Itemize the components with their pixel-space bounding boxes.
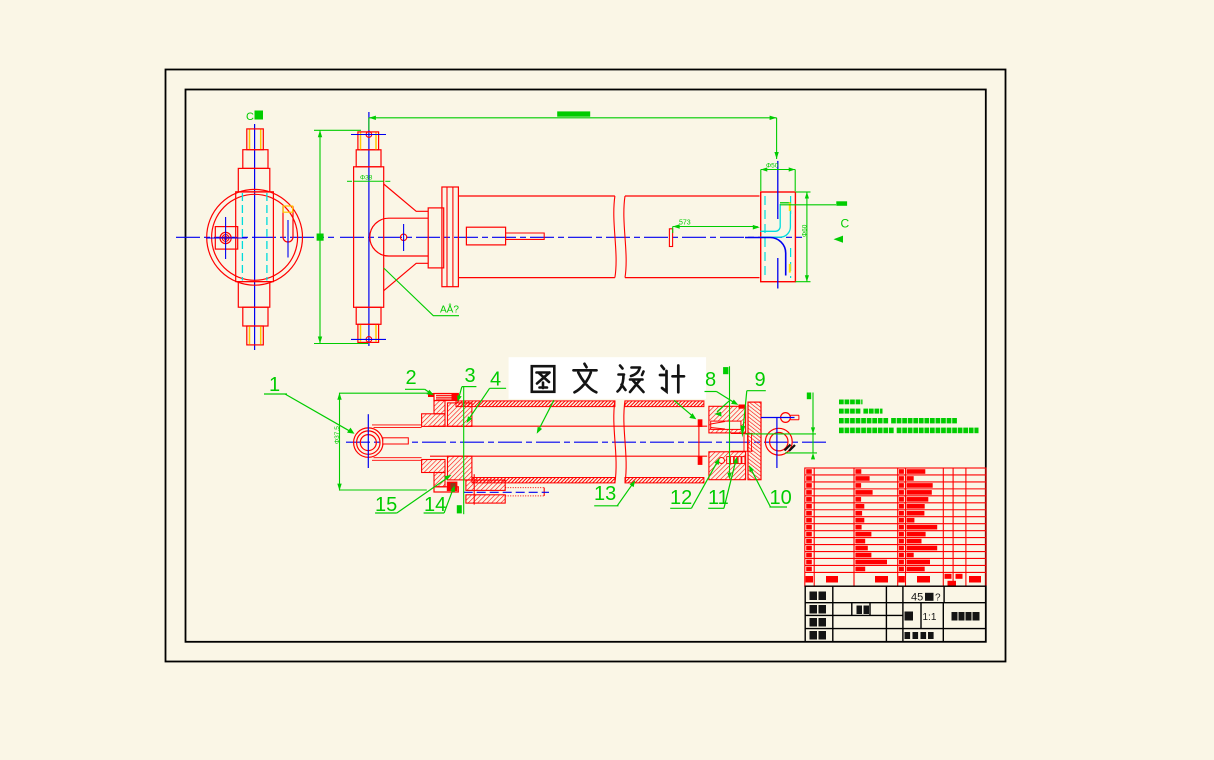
right eye vertical centerline bbox=[776, 418, 778, 468]
height dimension between views bbox=[314, 130, 368, 343]
piston port block bbox=[739, 405, 746, 409]
svg-text:8: 8 bbox=[705, 369, 716, 391]
eye diameter dimension bbox=[340, 393, 428, 491]
scale cell bbox=[905, 612, 914, 621]
label5 leader remnant bbox=[538, 400, 554, 430]
parts list header texts bbox=[806, 574, 982, 586]
svg-text:Φ38: Φ38 bbox=[360, 175, 373, 182]
port stub bbox=[790, 415, 799, 419]
A-A view vertical centerline bbox=[368, 112, 370, 346]
fitting centerlines bbox=[206, 237, 247, 239]
piston top half bbox=[709, 406, 746, 433]
C-view horizontal centerline bbox=[176, 236, 334, 238]
eye boss bar bbox=[383, 438, 409, 444]
trunnion body bbox=[354, 167, 384, 307]
svg-text:10: 10 bbox=[770, 487, 792, 509]
piston ring grooves bbox=[727, 457, 745, 464]
break line right bbox=[624, 196, 626, 278]
section line green vertical bbox=[463, 387, 465, 514]
rod eye vertical centerline bbox=[367, 414, 369, 468]
yellow lines bottom pin bbox=[360, 325, 362, 342]
svg-text:4: 4 bbox=[490, 369, 501, 391]
section centerline bbox=[346, 441, 826, 443]
label6 leader remnant bbox=[674, 400, 694, 417]
trunnion top pin step1 bbox=[358, 132, 379, 150]
drawing title cell bbox=[952, 612, 980, 621]
parts list table grid bbox=[805, 468, 986, 586]
cyan pipe elbow bbox=[760, 204, 780, 231]
573 dimension bbox=[673, 227, 758, 234]
dimension text block bbox=[317, 234, 324, 241]
technical notes line 4 bbox=[839, 428, 844, 434]
C-view inner circle bbox=[212, 194, 298, 280]
gland flange bottom bbox=[422, 460, 445, 473]
parts list entries bbox=[806, 469, 937, 571]
rod upper outline bbox=[372, 424, 422, 426]
top pin centerline bbox=[351, 134, 386, 136]
pin diameter dimension bbox=[347, 180, 390, 182]
top pin hole circle bbox=[366, 132, 372, 138]
foot lower block bbox=[466, 495, 505, 503]
rod lower outline bbox=[372, 459, 422, 461]
svg-text:Φ50: Φ50 bbox=[766, 163, 779, 170]
svg-text:3: 3 bbox=[465, 365, 476, 387]
yellow bore lines top pin bbox=[249, 130, 251, 150]
cap top diameter dimension bbox=[761, 170, 795, 192]
slot centerline bbox=[287, 220, 289, 258]
C arrow bbox=[834, 236, 844, 243]
mid port tick bbox=[669, 229, 672, 247]
barrel wall band bottom bbox=[472, 478, 615, 483]
C-view top pin step 3 bbox=[238, 168, 269, 192]
gusset top bbox=[384, 184, 429, 211]
piston bottom half bbox=[709, 452, 746, 480]
yellow lines top pin bbox=[360, 133, 362, 150]
watermark box bbox=[509, 357, 706, 399]
main horizontal centerline bbox=[340, 236, 802, 238]
bottom pin centerline bbox=[351, 338, 386, 340]
svg-text:C: C bbox=[246, 111, 254, 123]
boss D-shape bbox=[370, 218, 428, 256]
inner border frame bbox=[186, 90, 986, 642]
break line left bbox=[614, 196, 616, 278]
side slot bbox=[283, 206, 293, 242]
watermark char she bbox=[618, 366, 644, 393]
bottom pin hole circle bbox=[366, 337, 372, 343]
C-view body rect bbox=[236, 192, 274, 282]
technical notes line 2 bbox=[839, 409, 844, 414]
trunnion bottom pin step2 bbox=[356, 307, 381, 324]
piston rod taper channel bbox=[711, 421, 741, 429]
section mark square bottom bbox=[457, 505, 462, 513]
flange plate outer bbox=[442, 187, 459, 287]
svg-text:573: 573 bbox=[679, 220, 691, 227]
section break lines bbox=[614, 400, 616, 483]
cyan hidden lines bbox=[241, 193, 243, 281]
rod inside gland bbox=[430, 425, 707, 427]
technical notes line 1 bbox=[839, 400, 844, 405]
watermark char wen bbox=[574, 364, 597, 393]
port hole centerline bbox=[761, 417, 795, 419]
A-A section leader bbox=[384, 268, 459, 316]
C-view top pin step 1 bbox=[247, 129, 263, 150]
C-view vertical centerline bbox=[254, 124, 256, 350]
watermark char tu bbox=[532, 366, 555, 392]
end cap vertical centerline bbox=[777, 161, 779, 219]
svg-text:9: 9 bbox=[755, 369, 766, 391]
barrel outline left section bbox=[458, 195, 615, 197]
slot yellow top bbox=[283, 206, 292, 212]
rod end nut bottom bbox=[698, 456, 703, 465]
gland neck top bbox=[434, 401, 445, 414]
boss vertical centerline bbox=[403, 224, 405, 251]
title block row labels bbox=[810, 592, 870, 640]
trunnion top pin step2 bbox=[356, 150, 381, 167]
blue pipe centerline bbox=[745, 237, 786, 275]
gland right block bottom bbox=[448, 456, 472, 480]
svg-text:1: 1 bbox=[269, 374, 280, 396]
section end cap slab bbox=[748, 402, 761, 480]
C view mark leader bbox=[780, 204, 836, 206]
pipe cap green tick bbox=[780, 202, 791, 204]
leader-14 arrow patch bbox=[451, 483, 456, 489]
flange plate inner bbox=[428, 208, 444, 268]
svg-text:AÅ?: AÅ? bbox=[440, 303, 459, 316]
rod end nut top bbox=[698, 419, 703, 427]
C mark text block bbox=[836, 201, 847, 206]
gland cap part2 top bbox=[428, 393, 458, 401]
C-view bottom step 1 bbox=[247, 326, 263, 345]
rod end face bbox=[698, 427, 700, 456]
svg-text:1:1: 1:1 bbox=[923, 612, 937, 623]
section mark square right bbox=[723, 367, 728, 374]
yellow bore marks bbox=[789, 203, 791, 212]
rod eye circles bbox=[354, 428, 383, 457]
overall length dimension bbox=[369, 118, 777, 159]
rod stem bbox=[506, 233, 545, 239]
technical notes line 3 bbox=[839, 418, 844, 423]
cap right diameter dimension bbox=[795, 192, 810, 282]
end cap hidden lines bbox=[764, 196, 766, 278]
label7 leader remnant bbox=[717, 401, 729, 412]
piston bottom circle detail bbox=[719, 458, 725, 464]
right rod eye circles bbox=[765, 428, 792, 455]
foot centerline bbox=[464, 491, 549, 493]
foot upper block bbox=[466, 480, 505, 490]
svg-text:2: 2 bbox=[406, 367, 417, 389]
gland flange top bbox=[422, 414, 445, 427]
foot tube dotted bbox=[505, 488, 544, 496]
svg-text:45: 45 bbox=[911, 592, 923, 604]
grease fitting block bbox=[215, 227, 237, 250]
outer border frame bbox=[166, 70, 1006, 662]
cushion sleeve lines bbox=[731, 433, 753, 452]
boss hole bbox=[400, 234, 406, 240]
C-view top pin step 2 bbox=[243, 150, 268, 169]
trunnion bottom pin step1 bbox=[358, 324, 379, 342]
watermark char ji bbox=[660, 366, 684, 393]
svg-text:Φ37.5: Φ37.5 bbox=[334, 426, 341, 444]
black slash marks bbox=[785, 445, 796, 452]
svg-text:C: C bbox=[841, 217, 850, 231]
sheet count row bbox=[905, 632, 934, 639]
svg-text:?: ? bbox=[935, 593, 941, 604]
svg-text:Φ60: Φ60 bbox=[802, 224, 809, 237]
barrel wall band top bbox=[456, 401, 615, 407]
section line right green vertical bbox=[729, 366, 731, 478]
piston rod boss bbox=[466, 227, 505, 245]
port hole circle bbox=[781, 413, 791, 423]
svg-text:11: 11 bbox=[708, 487, 729, 509]
foot tick line bbox=[473, 474, 475, 504]
svg-text:12: 12 bbox=[670, 487, 692, 509]
yellow bore lines bottom pin bbox=[249, 327, 251, 345]
C-view bottom step 3 bbox=[238, 282, 269, 308]
gland right block top bbox=[448, 403, 472, 427]
C-view outer circle bbox=[207, 189, 303, 285]
gland cap bottom bbox=[434, 482, 458, 492]
overall dimension text block bbox=[557, 111, 590, 116]
barrel outline right section bbox=[625, 195, 760, 197]
end cap body bbox=[761, 192, 796, 282]
svg-text:13: 13 bbox=[594, 483, 616, 505]
fitting circles bbox=[220, 232, 231, 243]
C-view bottom step 2 bbox=[243, 307, 268, 326]
right dimension bbox=[745, 393, 817, 453]
gland neck bottom bbox=[434, 473, 445, 487]
gusset bottom bbox=[384, 263, 429, 290]
title block grid bbox=[805, 586, 986, 642]
